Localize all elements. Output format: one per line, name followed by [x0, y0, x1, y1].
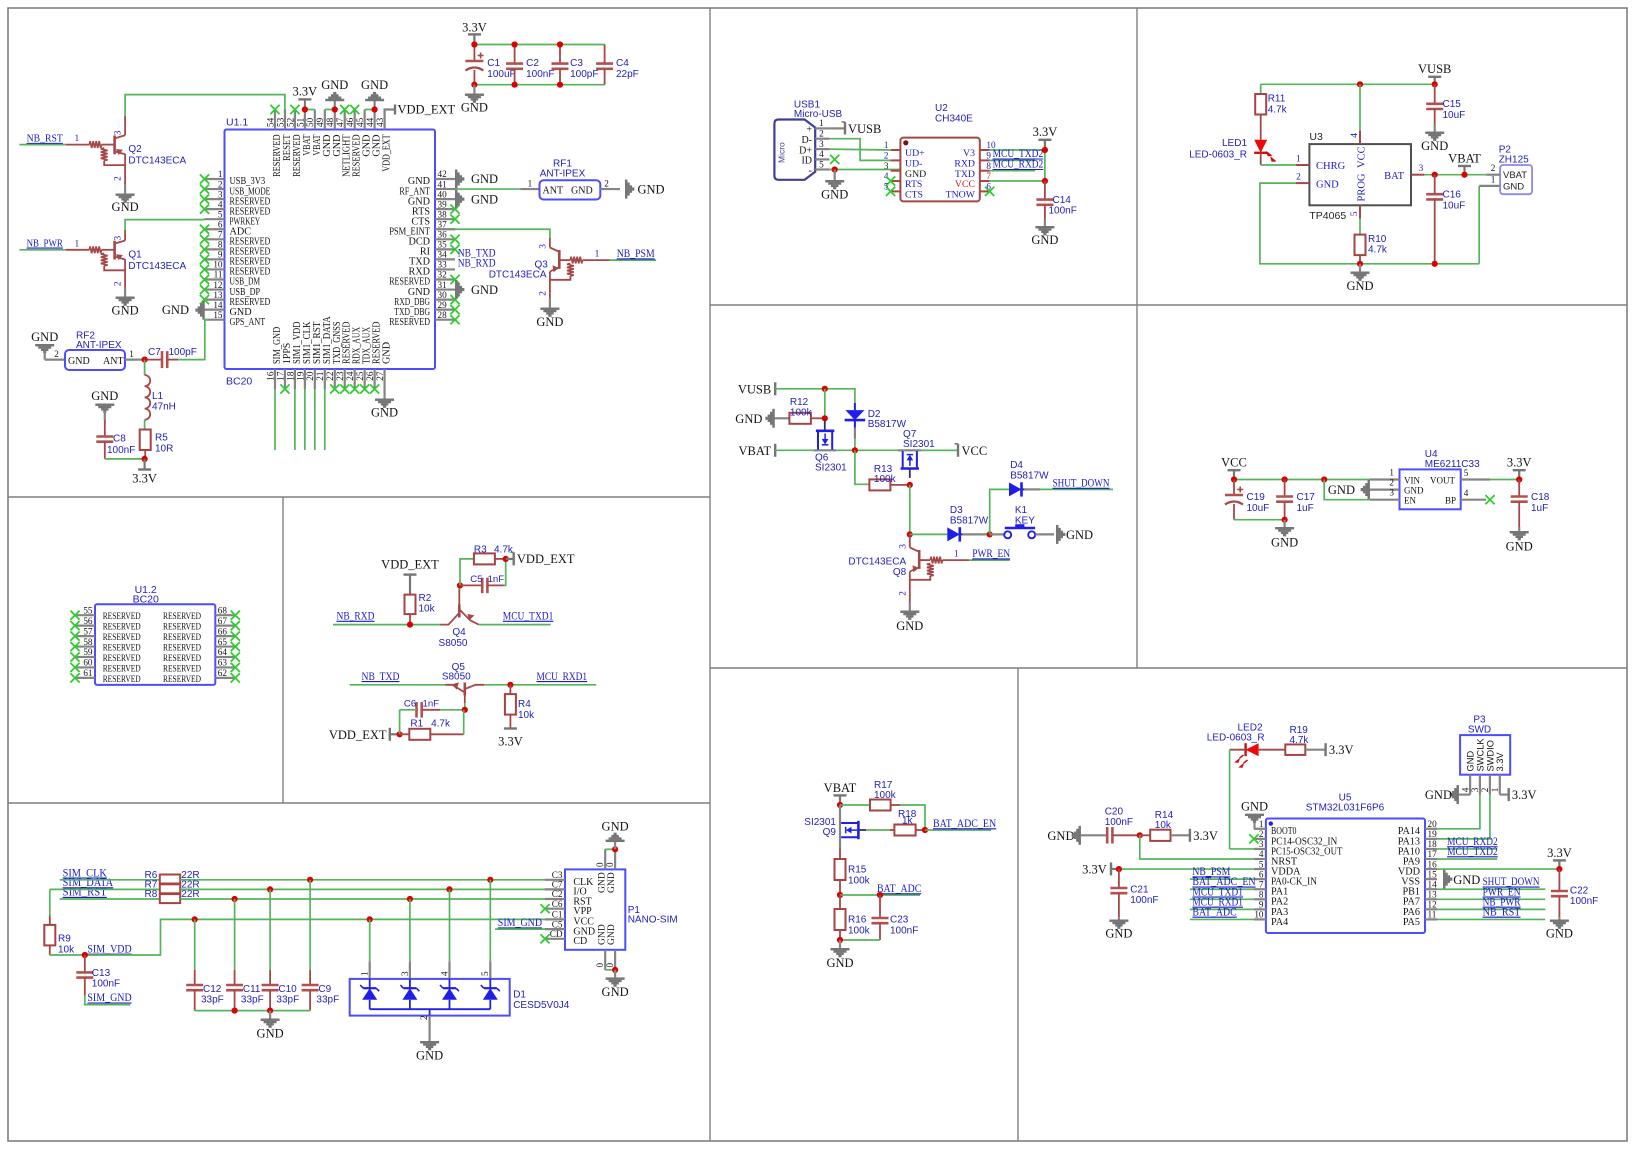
ground below C21	[1105, 917, 1132, 940]
svg-text:C18: C18	[1531, 492, 1550, 503]
svg-text:1: 1	[1491, 175, 1496, 185]
svg-text:GND: GND	[638, 182, 665, 196]
junction at pin 44	[372, 106, 378, 112]
ic U1.1 BC20 box	[225, 117, 436, 388]
ground flag left of R12	[735, 409, 789, 428]
svg-text:DTC143ECA: DTC143ECA	[128, 261, 186, 272]
svg-text:1: 1	[75, 134, 80, 144]
svg-text:VCC: VCC	[1357, 146, 1368, 168]
power flag VBAT above BAT wire	[1448, 151, 1481, 177]
ic U4 ME6211C33	[1370, 449, 1490, 509]
svg-text:S8050: S8050	[439, 638, 468, 649]
svg-text:RESERVED: RESERVED	[163, 675, 201, 685]
svg-text:C17: C17	[1297, 492, 1316, 503]
svg-text:GND: GND	[1271, 536, 1298, 550]
svg-text:15: 15	[213, 310, 223, 320]
junction VBAT/R17/Q9	[837, 802, 843, 808]
svg-text:62: 62	[218, 668, 228, 678]
svg-text:3: 3	[114, 130, 124, 135]
resistor R12 100k	[789, 397, 824, 424]
svg-text:PA4: PA4	[1271, 917, 1288, 928]
ic U5 STM32L031F6P6 box	[1266, 792, 1425, 933]
wire LED2 to U5 pin3	[1230, 750, 1254, 849]
power flag VBAT	[739, 444, 776, 458]
svg-text:41: 41	[438, 179, 448, 189]
svg-text:61: 61	[83, 668, 93, 678]
svg-text:GND: GND	[112, 304, 139, 318]
wire Q1 emitter to ground	[124, 259, 126, 288]
svg-text:R16: R16	[848, 915, 867, 926]
wire NB_RXD row	[333, 624, 440, 626]
wire VBAT node to R17	[840, 804, 870, 806]
svg-text:2: 2	[1491, 163, 1496, 173]
ground below Q1	[112, 288, 139, 318]
svg-text:GND: GND	[735, 412, 762, 426]
junction VCC/C14	[1042, 178, 1048, 184]
resistor R5 10R	[140, 430, 174, 455]
junction R16 bottom	[837, 937, 843, 943]
ic U2 CH340E box	[900, 103, 979, 201]
svg-text:3: 3	[114, 235, 124, 240]
ground flag at U5 VSS	[1443, 870, 1480, 889]
net label SIM_GND at P1 C5	[495, 917, 545, 929]
wire U2 pin9 RXD / MCU_TXD2	[990, 148, 1044, 160]
svg-text:1: 1	[218, 169, 223, 179]
svg-text:NB_TXD: NB_TXD	[362, 671, 400, 683]
resistor R8 22R	[145, 889, 200, 903]
wire Q8 base to PWR_EN	[969, 559, 1010, 561]
ground flag at U1.1 pin 48	[321, 78, 348, 110]
svg-text:2: 2	[1389, 478, 1394, 488]
svg-text:BAT_ADC_EN: BAT_ADC_EN	[933, 818, 997, 830]
svg-text:1: 1	[954, 549, 959, 559]
wire R7 to P1 C7 I/O	[180, 888, 545, 890]
U1.1 pin 47 NETLIGHT (top)	[335, 105, 353, 177]
svg-text:1: 1	[1259, 819, 1264, 829]
U5 pin 7 PA1	[1254, 879, 1288, 897]
svg-text:SIM_RST: SIM_RST	[63, 887, 107, 899]
svg-text:NB_RST: NB_RST	[1483, 906, 1521, 918]
svg-text:100nF: 100nF	[1570, 896, 1598, 907]
svg-text:22: 22	[325, 371, 335, 381]
P1 pin C1 VCC	[545, 910, 594, 928]
U1.1 pin 6 ADC	[200, 219, 251, 237]
junction C16 top	[1432, 172, 1438, 178]
no-connect U4 BP	[1485, 495, 1494, 504]
svg-text:D1: D1	[513, 990, 526, 1001]
transistor Q8 DTC143ECA	[848, 534, 969, 602]
svg-text:2: 2	[898, 591, 908, 596]
junction dots on SIM rows for D1	[367, 877, 494, 923]
junction R1/VDD_EXT/C6	[397, 731, 403, 737]
power flag 3.3V at VDDA	[1082, 862, 1119, 876]
capacitor C7 100pF	[145, 347, 197, 368]
switch K1 KEY	[990, 505, 1054, 538]
ground below cap bank	[257, 1011, 284, 1041]
U2 pin 3 GND	[884, 161, 926, 180]
svg-text:GND: GND	[361, 78, 388, 92]
power flag VDD_EXT above R2	[381, 558, 439, 595]
svg-text:68: 68	[218, 605, 228, 615]
svg-text:100nF: 100nF	[890, 925, 918, 936]
svg-text:100nF: 100nF	[92, 979, 120, 990]
wire Q3 emitter to ground	[536, 299, 563, 329]
svg-text:3: 3	[1470, 787, 1480, 792]
wire 3.3V rail C1-C4 top	[474, 44, 604, 46]
U1.2 pin 62 RESERVED (right)	[163, 668, 240, 685]
svg-text:8: 8	[986, 161, 991, 171]
svg-text:2: 2	[1259, 829, 1264, 839]
U1.1 pin 22 TXD_GNSS (bottom)	[325, 321, 343, 393]
junction C22 top	[1556, 866, 1562, 872]
svg-text:Micro: Micro	[777, 142, 787, 163]
wire C8 to R5 bottom	[105, 450, 145, 459]
svg-text:1: 1	[1490, 787, 1500, 792]
svg-text:5: 5	[1350, 211, 1360, 216]
capacitor C9 33pF	[302, 880, 340, 1011]
wire R2 to NB_RXD row	[409, 614, 411, 625]
svg-text:4: 4	[1464, 488, 1469, 498]
power flag VUSB at USB1 pin 1	[829, 122, 881, 136]
svg-text:10k: 10k	[1155, 820, 1172, 831]
svg-text:1: 1	[1296, 154, 1301, 164]
svg-text:CESD5V0J4: CESD5V0J4	[513, 1000, 570, 1011]
wire BAT_ADC_EN	[925, 829, 991, 831]
svg-text:KEY: KEY	[1015, 515, 1035, 526]
wire Q7 gate node down to D3 row	[909, 485, 911, 535]
svg-text:100pF: 100pF	[570, 69, 598, 80]
svg-text:GND: GND	[471, 172, 498, 186]
svg-text:ANT: ANT	[103, 356, 124, 367]
svg-text:10uF: 10uF	[1443, 200, 1466, 211]
capacitor C1 100uF polarized	[465, 45, 515, 85]
junction C21 top	[1116, 866, 1122, 872]
U1.1 pin 1 USB_3V3	[200, 169, 265, 187]
svg-text:1k: 1k	[902, 816, 914, 827]
wire NB_TXD row	[350, 684, 446, 686]
wire C23 bottom to R16 bottom	[840, 939, 880, 941]
svg-text:2: 2	[884, 151, 889, 161]
svg-text:13: 13	[213, 290, 223, 300]
svg-text:4.7k: 4.7k	[1368, 245, 1388, 256]
svg-text:20: 20	[1428, 819, 1438, 829]
svg-text:33pF: 33pF	[276, 995, 299, 1006]
ground below C17	[1271, 520, 1298, 550]
wire U5 VDD to 3.3V	[1437, 868, 1559, 870]
U5 pin 1 BOOT0	[1254, 819, 1297, 837]
resistor R18 1k	[894, 809, 925, 836]
svg-text:D-: D-	[801, 135, 812, 146]
svg-text:31: 31	[438, 280, 448, 290]
svg-text:BC20: BC20	[133, 594, 159, 606]
svg-text:GND: GND	[1425, 788, 1452, 802]
svg-text:67: 67	[218, 616, 228, 626]
resistor R10 4.7k	[1355, 219, 1388, 264]
U1.1 pin 9 RESERVED	[200, 250, 270, 268]
svg-text:RESERVED: RESERVED	[103, 623, 141, 633]
U1.1 pin 48 GND (top)	[325, 110, 343, 157]
svg-text:RESERVED: RESERVED	[163, 633, 201, 643]
U1.1 pin 36 DCD	[408, 230, 459, 248]
wire to D3	[910, 533, 948, 535]
net label BAT_ADC at U5	[1190, 906, 1254, 919]
svg-text:LED1: LED1	[1222, 138, 1247, 149]
svg-text:3.3V: 3.3V	[462, 21, 487, 35]
junction R10 bottom	[1357, 261, 1363, 267]
svg-text:CHRG: CHRG	[1316, 161, 1346, 172]
ground flag at U4 GND pin	[1328, 480, 1370, 499]
junction USB shield ground	[832, 166, 838, 172]
svg-text:50: 50	[305, 117, 315, 127]
svg-text:RTS: RTS	[905, 179, 922, 190]
wire VUSB rail to R11 and U3 pin4	[1261, 83, 1435, 85]
svg-text:GND: GND	[321, 78, 348, 92]
wire R9 pull-up on SIM_DATA	[49, 889, 51, 915]
U1.1 pin 5 PWRKEY	[205, 209, 261, 227]
svg-text:16: 16	[265, 371, 275, 381]
U1.2 pin 57 RESERVED (left)	[70, 626, 140, 643]
junction C23 top	[877, 892, 883, 898]
svg-text:GND: GND	[1346, 279, 1373, 293]
svg-text:1: 1	[528, 179, 533, 189]
svg-text:4.7k: 4.7k	[1290, 735, 1310, 746]
ground flag at RF1 pin 2	[625, 180, 665, 199]
svg-text:BC20: BC20	[226, 376, 252, 388]
svg-text:5: 5	[218, 209, 223, 219]
svg-text:DTC143ECA: DTC143ECA	[128, 156, 186, 167]
svg-text:3.3V: 3.3V	[1193, 829, 1218, 843]
svg-text:PWR_EN: PWR_EN	[972, 548, 1011, 560]
svg-text:2: 2	[1296, 172, 1301, 182]
resistor R16 100k	[835, 895, 871, 940]
power flag VBAT above divider	[824, 781, 857, 805]
svg-text:VDD_EXT: VDD_EXT	[381, 558, 439, 572]
svg-text:33pF: 33pF	[201, 995, 224, 1006]
svg-text:VOUT: VOUT	[1430, 475, 1455, 485]
svg-text:Q2: Q2	[128, 144, 142, 155]
svg-text:22pF: 22pF	[616, 69, 639, 80]
U5 pin 20 PA14	[1398, 819, 1437, 837]
svg-text:2: 2	[114, 281, 124, 286]
svg-text:100nF: 100nF	[1049, 206, 1077, 217]
svg-text:SI2301: SI2301	[815, 463, 847, 474]
ground below C22	[1546, 917, 1573, 940]
svg-text:SWDIO: SWDIO	[1485, 740, 1495, 772]
U2 pin 10 V3	[963, 140, 996, 159]
U1.2 pin 59 RESERVED (left)	[70, 647, 140, 664]
svg-text:47: 47	[335, 117, 345, 127]
wire U3 BAT to P2	[1424, 174, 1486, 176]
svg-text:51: 51	[295, 117, 305, 127]
capacitor C21 100nF	[1110, 869, 1158, 917]
mosfet Q9 SI2301	[804, 805, 866, 848]
svg-text:42: 42	[438, 169, 448, 179]
svg-text:55: 55	[83, 605, 93, 615]
svg-text:R15: R15	[848, 865, 867, 876]
power flag 3.3V at U1.1 pin 51	[293, 84, 318, 109]
svg-text:5: 5	[1464, 468, 1469, 478]
svg-text:3: 3	[884, 161, 889, 171]
pin 1 of RF2	[125, 349, 145, 360]
svg-text:GND: GND	[1546, 927, 1573, 941]
svg-text:9: 9	[218, 250, 223, 260]
svg-text:VPP: VPP	[573, 906, 592, 917]
capacitor C5 1nF	[460, 574, 504, 593]
svg-text:SHUT_DOWN: SHUT_DOWN	[1053, 478, 1110, 490]
svg-text:47nH: 47nH	[152, 402, 176, 413]
svg-text:33pF: 33pF	[316, 995, 339, 1006]
junction R15/BAT_ADC	[837, 892, 843, 898]
power flag VUSB	[738, 382, 775, 396]
junction at pin 48	[332, 106, 338, 112]
ground below C18	[1506, 527, 1533, 554]
net label BAT_ADC_EN at U5	[1190, 876, 1256, 889]
wire USB1 D- to U2 UD-	[829, 139, 890, 161]
svg-text:36: 36	[438, 230, 448, 240]
svg-text:100pF: 100pF	[169, 347, 197, 358]
svg-text:100k: 100k	[848, 875, 871, 886]
junction C17 top	[1282, 476, 1288, 482]
junction D3/K1/D4	[987, 531, 993, 537]
svg-text:10: 10	[1254, 910, 1264, 920]
diode D4 B5817W	[1009, 460, 1049, 496]
svg-text:RESERVED: RESERVED	[163, 654, 201, 664]
U2 pin 7 VCC	[955, 171, 992, 190]
svg-text:10uF: 10uF	[1247, 503, 1270, 514]
svg-text:GND: GND	[112, 200, 139, 214]
P1 pin C7 I/O	[545, 880, 587, 898]
net label NB_PSM at U5	[1190, 866, 1254, 879]
svg-text:3: 3	[539, 244, 549, 249]
U1.1 pin 32 RESERVED	[389, 270, 459, 288]
svg-text:1: 1	[819, 118, 824, 128]
mosfet Q7 SI2301	[898, 429, 935, 478]
wire R6 to P1 C3 CLK	[180, 879, 545, 881]
U1.1 pin 39 RTS	[412, 199, 460, 217]
resistor R6 22R	[145, 870, 200, 884]
svg-text:RESERVED: RESERVED	[103, 644, 141, 654]
svg-text:3.3V: 3.3V	[1082, 863, 1107, 877]
net label PWR_EN at U5 right	[1437, 886, 1545, 899]
svg-text:28: 28	[438, 310, 448, 320]
svg-text:GND: GND	[68, 356, 90, 367]
U5 pin 5 VDDA	[1254, 859, 1301, 877]
svg-text:GND: GND	[162, 303, 189, 317]
svg-text:100k: 100k	[848, 925, 871, 936]
svg-text:RESERVED: RESERVED	[103, 633, 141, 643]
svg-text:C5: C5	[470, 574, 482, 585]
junction VUSB/R12 branch	[822, 386, 828, 392]
wire junction to L1	[144, 360, 146, 375]
junction C20/R14/NRST	[1137, 832, 1143, 838]
wire R1 right to Q5 base node	[463, 710, 465, 735]
svg-text:32: 32	[438, 270, 448, 280]
U1.2 pin 55 RESERVED (left)	[70, 605, 140, 622]
svg-text:60: 60	[83, 658, 93, 668]
svg-text:45: 45	[355, 117, 365, 127]
capacitor C4 22pF	[596, 45, 639, 85]
U1.1 pin 10 RESERVED	[200, 260, 270, 278]
svg-text:GND: GND	[471, 192, 498, 206]
junction C16 bottom	[1432, 261, 1438, 267]
svg-text:10R: 10R	[155, 444, 173, 455]
svg-text:BAT: BAT	[1384, 171, 1404, 182]
svg-text:RESERVED: RESERVED	[163, 644, 201, 654]
ground flag at U1.1 pin 31	[455, 280, 498, 299]
svg-text:7: 7	[1259, 879, 1264, 889]
wire Q5 collector to MCU_RXD1	[484, 684, 596, 686]
svg-text:MCU_RXD1: MCU_RXD1	[537, 671, 588, 683]
U1.1 pin 4 RESERVED	[200, 199, 270, 217]
junction D2/Q6/Q7/R13	[852, 447, 858, 453]
svg-text:U1.1: U1.1	[226, 117, 248, 129]
ground flag at U1.1 pin 42	[455, 170, 498, 189]
U2 pin 8 TXD	[955, 161, 992, 180]
wire Q1 collector to U1.1 pin 5 PWRKEY	[125, 220, 204, 241]
capacitor C6 1nF	[400, 698, 465, 717]
svg-text:VDD_EXT: VDD_EXT	[329, 728, 387, 742]
connector P1 NANO-SIM box	[565, 869, 678, 949]
wire junction down to R13	[855, 450, 870, 484]
wire U2 pin8 TXD / MCU_RXD2	[990, 159, 1044, 171]
U1.1 pin 21 SIM1_DATA (bottom)	[315, 316, 333, 389]
U1.2 pin 56 RESERVED (left)	[70, 616, 140, 633]
svg-text:GND: GND	[1453, 873, 1480, 887]
svg-text:4: 4	[1460, 787, 1470, 792]
U1.1 pin 11 USB_DM	[200, 270, 260, 288]
resistor R3 4.7k	[460, 544, 514, 585]
U1.1 pin 45 GND (top)	[355, 110, 373, 157]
net label SIM_GND below C13	[85, 992, 132, 1004]
svg-text:VBAT: VBAT	[824, 781, 857, 795]
svg-text:GND: GND	[1404, 485, 1424, 495]
svg-text:12: 12	[213, 280, 223, 290]
wire EN to VCC rail	[1324, 480, 1370, 500]
svg-text:C4: C4	[616, 58, 629, 69]
svg-text:Q8: Q8	[893, 567, 907, 578]
wire BAT_ADC row	[840, 894, 920, 896]
svg-text:GND: GND	[91, 389, 118, 403]
svg-text:7: 7	[218, 230, 223, 240]
wire D4 branch up	[990, 489, 1009, 534]
wire SIM_RST row to R8	[60, 898, 160, 900]
U1.1 pin 31 GND	[408, 280, 455, 298]
ground above C8	[91, 389, 118, 420]
P1 pin C5 GND	[545, 919, 595, 937]
U2 pin 9 RXD	[954, 151, 991, 170]
svg-text:RESERVED: RESERVED	[163, 623, 201, 633]
wire VDDA row	[1119, 868, 1254, 870]
U1.1 pin 28 RESERVED	[389, 310, 459, 328]
power flag VCC	[1221, 456, 1247, 480]
led LED1 LED-0603_R	[1189, 138, 1276, 162]
svg-text:4: 4	[819, 149, 824, 159]
svg-text:19: 19	[1428, 829, 1438, 839]
power flag 3.3V below R4	[498, 729, 523, 749]
svg-text:ANT: ANT	[543, 186, 564, 197]
wire NRST	[1140, 835, 1254, 859]
svg-text:SWCLK: SWCLK	[1475, 738, 1485, 772]
svg-text:4: 4	[1259, 849, 1264, 859]
U1.1 pin 29 TXD_DBG	[394, 300, 459, 318]
svg-text:40: 40	[438, 189, 448, 199]
svg-text:63: 63	[218, 658, 228, 668]
junction EN branch	[1321, 476, 1327, 482]
connector P3 SWD	[1460, 715, 1510, 795]
U1.1 pin 2 USB_MODE	[200, 179, 270, 197]
svg-text:L1: L1	[152, 391, 164, 402]
svg-text:GND: GND	[1421, 139, 1448, 153]
